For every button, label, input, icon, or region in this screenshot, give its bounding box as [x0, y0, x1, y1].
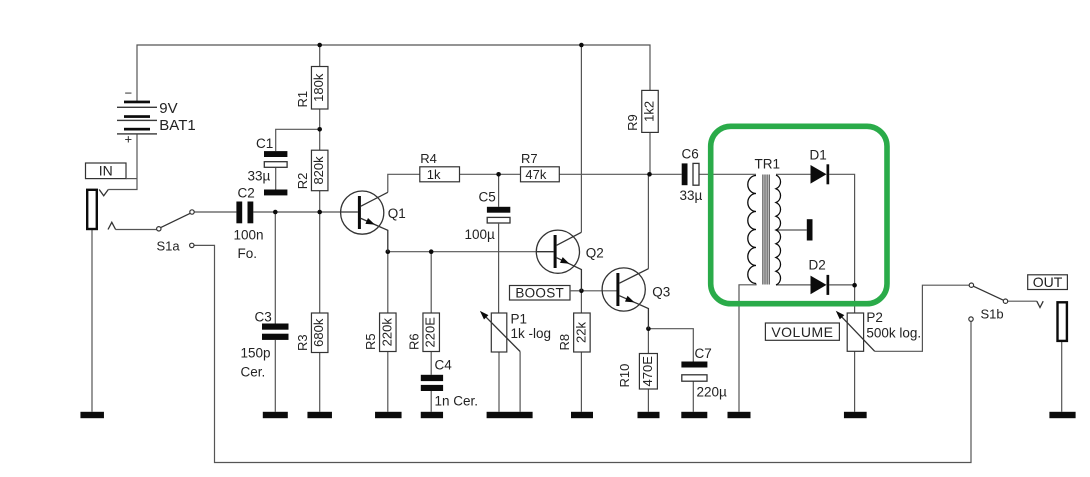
svg-text:D2: D2 [809, 258, 826, 273]
wire Q2 collector riser [580, 45, 582, 232]
svg-text:47k: 47k [525, 167, 546, 182]
wire P2 wiper to S1b [875, 285, 970, 351]
svg-text:22k: 22k [573, 322, 588, 343]
svg-text:R7: R7 [521, 151, 538, 166]
wire C3 to ground [274, 340, 276, 412]
ground C1 [264, 190, 287, 196]
svg-text:+: + [125, 132, 133, 147]
svg-text:R2: R2 [295, 173, 310, 190]
resistor R1 180k [295, 67, 328, 110]
wire input jack body to ground [91, 230, 93, 412]
svg-text:OUT: OUT [1033, 274, 1063, 290]
svg-text:C3: C3 [255, 310, 272, 325]
label BOOST box [510, 285, 580, 300]
ground R5 [375, 412, 402, 418]
wire Q3 emitter node to R10 [647, 329, 649, 354]
output jack J-OUT [1037, 301, 1067, 341]
node R9 C6 Q3 [647, 172, 652, 177]
wire input signal line C2 to Q1 base [253, 211, 340, 213]
svg-text:33µ: 33µ [680, 188, 703, 203]
wire TR1 center tap [776, 229, 807, 231]
resistor R6 220E [406, 313, 439, 352]
wire C5 top [498, 174, 500, 207]
ground output jack [1049, 412, 1075, 418]
wire D1 cathode to right rail [829, 174, 854, 285]
wire R4 to node [460, 173, 499, 175]
svg-text:180k: 180k [311, 73, 326, 102]
wire P1 bottom to ground [498, 352, 500, 412]
svg-text:R8: R8 [557, 334, 572, 351]
wire D2 cathode to node [829, 284, 854, 286]
svg-text:150p: 150p [241, 346, 271, 361]
svg-text:D1: D1 [810, 148, 827, 163]
node R1 R2 C1 [317, 127, 322, 132]
wire node to P2 top [854, 285, 856, 313]
svg-text:820k: 820k [311, 156, 326, 185]
svg-text:R1: R1 [295, 91, 310, 108]
wire C5 to P1 [498, 224, 500, 313]
wire P2 bottom to ground [854, 351, 856, 412]
ground P1 [487, 412, 533, 418]
svg-text:C4: C4 [435, 358, 453, 373]
potentiometer P2 500k log [836, 310, 921, 351]
green highlight box [711, 126, 887, 303]
svg-text:C5: C5 [479, 190, 496, 205]
transistor Q3 [602, 268, 670, 329]
svg-text:C6: C6 [682, 147, 699, 162]
input jack J-IN [87, 190, 115, 230]
transistor Q1 [341, 191, 406, 252]
capacitor C3 150p [241, 310, 289, 380]
svg-text:220µ: 220µ [697, 385, 728, 400]
resistor R3 680k [295, 313, 328, 353]
node supply Q2 [579, 43, 584, 48]
wire Q2 emitter node down to R8 [580, 291, 582, 313]
svg-text:Q3: Q3 [652, 285, 670, 300]
ground C4 [421, 412, 443, 418]
wire node to R7 [499, 173, 521, 175]
wire R6 branch [430, 252, 432, 313]
capacitor C1 33u [248, 136, 288, 184]
resistor R9 1k2 [625, 90, 658, 132]
wire output jack to ground [1061, 341, 1063, 411]
capacitor C4 1n [421, 358, 478, 409]
wire TR1 primary return to ground [739, 284, 756, 412]
wire TR1 secondary top to D1 [776, 173, 811, 175]
wire R2 top [319, 129, 321, 150]
svg-text:R3: R3 [295, 334, 310, 351]
svg-text:Q1: Q1 [388, 206, 406, 221]
svg-text:VOLUME: VOLUME [771, 324, 833, 340]
battery BAT1 9V [117, 86, 196, 147]
wire Q1 emitter line to Q2 base [388, 251, 537, 253]
wire R5 to ground [387, 351, 389, 412]
wire Q3 emitter node to C7 [648, 329, 693, 362]
svg-text:C2: C2 [238, 186, 255, 201]
wire TR1 secondary bottom to D2 [776, 284, 811, 286]
label VOLUME box [765, 323, 839, 340]
svg-text:220k: 220k [379, 318, 394, 347]
svg-text:R6: R6 [406, 333, 421, 350]
svg-text:R10: R10 [617, 364, 632, 388]
svg-text:100µ: 100µ [465, 227, 496, 242]
resistor R4 1k [420, 151, 460, 182]
svg-text:BOOST: BOOST [515, 285, 564, 300]
label IN box [86, 163, 138, 179]
svg-text:100n: 100n [234, 228, 264, 243]
svg-text:R5: R5 [363, 333, 378, 350]
svg-text:−: − [125, 86, 133, 101]
svg-text:TR1: TR1 [755, 157, 781, 172]
wire C1 to ground bar [275, 168, 277, 190]
wire battery to input jack tip [108, 135, 137, 190]
svg-text:S1b: S1b [981, 307, 1004, 322]
svg-text:1k2: 1k2 [642, 101, 657, 122]
wire Q3 collector riser [647, 174, 649, 268]
node Q3 emitter R10 C7 [646, 326, 651, 331]
resistor R2 820k [295, 150, 328, 191]
wire R1 bottom to node [319, 109, 321, 129]
wire R1 top [319, 45, 321, 67]
wire R7 to collector node of Q3 [559, 173, 649, 175]
svg-text:Q2: Q2 [586, 246, 604, 261]
node R6 tap [429, 249, 434, 254]
svg-text:S1a: S1a [157, 239, 181, 254]
wire R10 to ground [647, 389, 649, 412]
svg-text:500k log.: 500k log. [866, 326, 921, 341]
ground R10 [638, 412, 660, 418]
ground input jack [80, 412, 104, 418]
ground TR1 primary [728, 412, 751, 418]
resistor R5 220k [363, 313, 396, 352]
node R4 R7 C5 [496, 172, 501, 177]
wire node to C6 [650, 173, 682, 175]
resistor R8 22k [557, 313, 590, 352]
node R2 signal [317, 210, 322, 215]
svg-text:Fo.: Fo. [238, 246, 258, 261]
svg-text:Cer.: Cer. [241, 365, 266, 380]
wire R9 bottom to Q3 collector [649, 132, 651, 174]
wire P1 wiper to ground [519, 352, 521, 412]
wire C4 to ground [430, 391, 432, 412]
diode D2 [809, 258, 830, 295]
wire S1b throw to output jack tip [1008, 300, 1037, 302]
svg-text:220E: 220E [423, 317, 438, 348]
svg-text:680k: 680k [311, 318, 326, 347]
capacitor C5 100u [465, 190, 511, 243]
resistor R10 470E [617, 354, 658, 390]
resistor R7 47k [521, 151, 560, 182]
wire R6 to C4 [430, 351, 432, 375]
wire R8 to ground [580, 352, 582, 412]
svg-text:470E: 470E [640, 356, 655, 387]
switch S1b [969, 283, 1008, 322]
wire C6 to TR1 primary [699, 173, 756, 175]
wire R3 branch [319, 212, 321, 313]
node C2 C3 [273, 210, 278, 215]
transformer TR1 [748, 157, 813, 286]
svg-text:P2: P2 [866, 310, 883, 325]
svg-text:P1: P1 [511, 312, 528, 327]
svg-text:1k -log: 1k -log [511, 326, 552, 341]
svg-text:C1: C1 [256, 136, 273, 151]
wire R5 branch [387, 252, 389, 313]
svg-text:R4: R4 [420, 151, 437, 166]
capacitor C2 100n [234, 186, 264, 262]
node supply R1 [317, 43, 322, 48]
wire R2 bottom [319, 191, 321, 212]
svg-text:IN: IN [99, 163, 113, 179]
capacitor C6 33u [680, 147, 703, 204]
wire node to C1 [276, 129, 320, 151]
ground C7 [681, 412, 707, 418]
svg-text:BAT1: BAT1 [159, 117, 195, 134]
wire S1a bypass contact down [194, 245, 971, 462]
wire jack sleeve to S1a pole [116, 229, 157, 231]
wire S1a throw to C2 [194, 211, 236, 213]
ground R3 [307, 412, 332, 418]
svg-text:33µ: 33µ [248, 169, 271, 184]
wire Q1 collector riser [388, 174, 420, 192]
wire C3 branch [274, 212, 276, 324]
transistor Q2 [536, 230, 603, 291]
capacitor C7 220u [681, 346, 727, 400]
ground C3 [263, 412, 288, 418]
node Q1 emitter [386, 249, 391, 254]
potentiometer P1 1k log [480, 311, 551, 352]
node D2 P2 [852, 283, 857, 288]
node BOOST Q2 Q3 R8 [579, 289, 584, 294]
svg-text:R9: R9 [625, 114, 640, 131]
diode D1 [810, 148, 830, 185]
wire top supply rail [137, 45, 650, 101]
wire C7 to ground [692, 380, 694, 412]
svg-text:1k: 1k [427, 167, 441, 182]
wire BOOST node to Q3 base [581, 290, 616, 292]
wire R3 to ground [319, 353, 321, 412]
ground P2 [844, 412, 867, 418]
switch S1a [157, 210, 195, 254]
ground R8 [571, 412, 593, 418]
svg-text:C7: C7 [695, 346, 712, 361]
label OUT box [1028, 274, 1068, 290]
svg-text:1n Cer.: 1n Cer. [435, 394, 479, 409]
svg-text:9V: 9V [159, 100, 177, 117]
